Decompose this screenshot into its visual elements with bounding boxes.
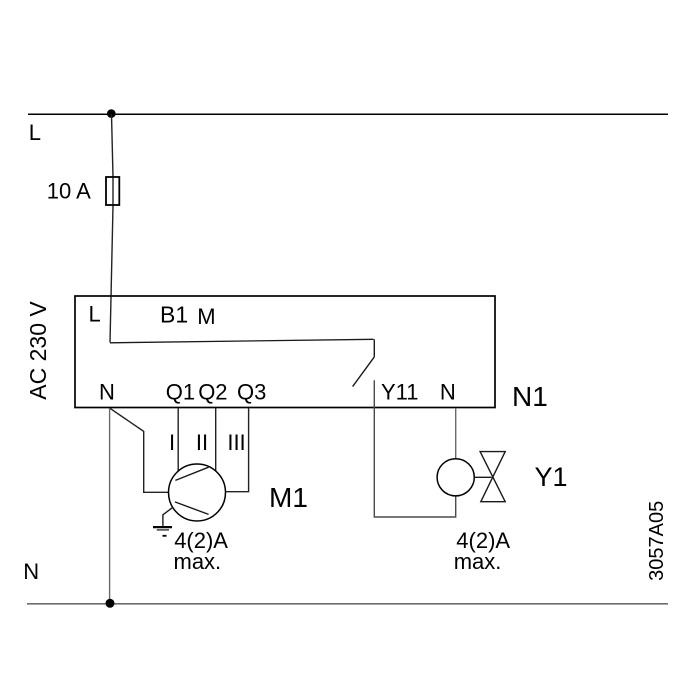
svg-text:II: II xyxy=(196,430,208,455)
wire Y11 to valve (down, right, up) xyxy=(374,380,455,517)
svg-text:Q1: Q1 xyxy=(166,379,195,404)
svg-text:Q2: Q2 xyxy=(198,379,227,404)
fuse F1 10A xyxy=(106,177,119,205)
svg-text:N: N xyxy=(99,379,115,404)
wire N bus (bottom neutral line) xyxy=(27,603,668,605)
wire from L bus through fuse into controller xyxy=(110,114,113,342)
node L junction dot top xyxy=(107,109,116,118)
motor M1 pump symbol circle xyxy=(169,464,226,521)
ground bar 3 xyxy=(163,535,167,537)
ground bar 1 xyxy=(153,526,172,528)
svg-text:max.: max. xyxy=(174,549,222,574)
svg-text:B1: B1 xyxy=(160,302,188,328)
wire N terminal to bottom N bus xyxy=(109,408,111,604)
ground bar 2 xyxy=(157,529,169,531)
svg-text:AC 230 V: AC 230 V xyxy=(25,301,51,400)
svg-text:10 A: 10 A xyxy=(47,179,91,204)
svg-text:III: III xyxy=(227,430,245,455)
svg-text:N1: N1 xyxy=(512,381,548,412)
svg-text:I: I xyxy=(169,430,175,455)
svg-text:3057A05: 3057A05 xyxy=(646,501,668,581)
svg-text:Y11: Y11 xyxy=(381,379,419,404)
svg-text:M1: M1 xyxy=(269,482,308,513)
svg-text:M: M xyxy=(197,304,215,329)
wire Q2 to motor xyxy=(215,408,217,471)
valve connector stem xyxy=(474,476,491,478)
valve actuator circle xyxy=(437,459,474,496)
svg-text:N: N xyxy=(440,379,456,404)
switch blade (open contact) xyxy=(353,357,375,387)
controller N1 box xyxy=(75,296,495,408)
wire L bus (top phase line) xyxy=(28,113,668,115)
svg-text:Y1: Y1 xyxy=(535,462,568,492)
svg-text:max.: max. xyxy=(454,549,502,574)
wire N terminal to motor xyxy=(110,408,169,492)
wire Q1 to motor xyxy=(177,408,179,471)
svg-text:L: L xyxy=(89,302,101,327)
valve body (bowtie) xyxy=(480,452,505,502)
motor chord upper xyxy=(175,467,208,480)
svg-text:L: L xyxy=(29,120,41,145)
svg-text:N: N xyxy=(23,559,39,584)
wire controller N to valve xyxy=(455,408,457,459)
ground lead xyxy=(163,507,173,526)
svg-text:Q3: Q3 xyxy=(237,379,266,404)
wire internal relay line xyxy=(110,339,374,343)
node N junction dot bottom xyxy=(106,599,115,608)
wire Q3 to motor xyxy=(226,408,249,492)
motor chord lower xyxy=(175,502,209,515)
switch fixed contact xyxy=(373,339,375,357)
